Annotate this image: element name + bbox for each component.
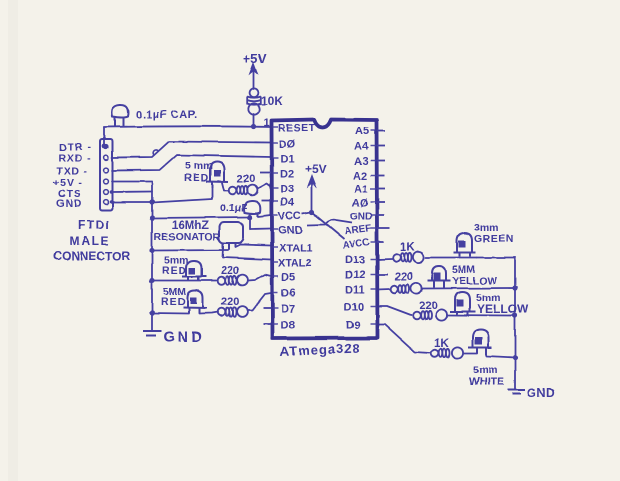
wire CTS row xyxy=(112,191,152,194)
tick D8 xyxy=(263,323,271,325)
wire +5V node to AVCC xyxy=(312,213,344,240)
svg-text:D13: D13 xyxy=(345,255,365,267)
svg-text:RESET: RESET xyxy=(278,122,316,134)
svg-text:D12: D12 xyxy=(345,270,365,282)
junction dot CTS exit xyxy=(110,190,114,194)
tick D12 xyxy=(377,274,388,276)
svg-text:A4: A4 xyxy=(354,141,369,153)
LED white body xyxy=(468,330,492,357)
wire RXD to D1 xyxy=(112,142,271,158)
svg-text:D11: D11 xyxy=(345,285,365,297)
capacitor C1 0.1uF body xyxy=(112,104,128,126)
svg-text:DØ: DØ xyxy=(279,139,296,151)
svg-text:YELLOW: YELLOW xyxy=(452,275,497,287)
wire LED1 cathode spur xyxy=(152,183,212,203)
junction dot rail GND row xyxy=(149,199,154,204)
resistor R1 10K vertical body xyxy=(247,88,261,114)
wire RESET net horizontal xyxy=(104,125,271,128)
capacitor C2 0.1uF body xyxy=(244,201,261,217)
svg-text:D10: D10 xyxy=(344,302,364,314)
svg-text:MALE: MALE xyxy=(70,234,110,248)
wire resonator ground line xyxy=(152,249,229,252)
junction dot rail D6 row xyxy=(149,310,154,315)
tick A1 xyxy=(377,188,385,190)
wire GND to AREF with hump xyxy=(307,220,352,225)
wire 10K pullup lead xyxy=(253,114,255,127)
wire D3 resistor to pin xyxy=(258,184,271,189)
svg-text:XTAL2: XTAL2 xyxy=(278,258,312,270)
svg-text:220: 220 xyxy=(221,265,239,277)
ground symbol right xyxy=(508,390,525,394)
wire yellow LED1 to rail xyxy=(422,287,515,290)
FTDI pin GND xyxy=(104,200,109,205)
wire D6 LED row xyxy=(152,312,189,315)
svg-text:YELLOW: YELLOW xyxy=(477,302,529,316)
wire D11 row to resistor xyxy=(377,288,390,291)
FTDI connector J1 body xyxy=(100,139,113,210)
svg-text:220: 220 xyxy=(221,296,239,308)
svg-text:0.1μF: 0.1μF xyxy=(220,202,248,214)
svg-text:+5V: +5V xyxy=(243,51,267,66)
svg-text:WHITE: WHITE xyxy=(469,376,504,388)
tick GND right xyxy=(377,214,384,216)
FTDI pin RXD xyxy=(104,155,109,160)
tick A2 xyxy=(377,175,385,177)
svg-text:D6: D6 xyxy=(281,288,295,300)
svg-text:5mm: 5mm xyxy=(473,364,498,376)
junction dot right rail yellow2 xyxy=(512,313,517,318)
resistor R6 220 body (D11) xyxy=(391,283,422,294)
chip U1 ATmega328 outline with notch xyxy=(272,120,378,339)
wire left ground rail xyxy=(151,182,153,332)
junction dot rail D5 row xyxy=(149,278,154,283)
junction dot rail VCC line xyxy=(149,215,154,220)
svg-text:RED: RED xyxy=(162,265,187,277)
svg-text:5 mm: 5 mm xyxy=(185,160,212,172)
LED D5red body xyxy=(183,261,207,281)
wire D6 LED to resistor xyxy=(199,312,218,314)
LED D3red body xyxy=(206,162,228,188)
tick D4 xyxy=(262,200,271,202)
wire yellow LED2 to rail xyxy=(447,314,515,317)
chip pin stub dashes inside body xyxy=(273,127,377,324)
svg-text:RED: RED xyxy=(184,172,209,184)
tick A3 xyxy=(377,160,385,162)
junction dot right rail white xyxy=(512,355,517,360)
resistor R4 220 body (D6) xyxy=(218,306,248,317)
svg-text:D9: D9 xyxy=(346,320,360,332)
svg-text:A5: A5 xyxy=(355,126,369,138)
resistor R7 220 body (D10) xyxy=(413,309,447,320)
svg-text:D4: D4 xyxy=(280,197,295,209)
tick A5 xyxy=(377,130,385,132)
junction dot node RESET/10K xyxy=(251,124,256,129)
svg-text:220: 220 xyxy=(395,271,413,283)
svg-text:D7: D7 xyxy=(281,304,295,316)
LED green body xyxy=(454,233,476,257)
junction dot GND exit xyxy=(110,200,114,204)
svg-text:AØ: AØ xyxy=(352,198,369,210)
junction dot +5V node xyxy=(309,210,314,215)
wire D5 resistor to pin xyxy=(248,275,271,281)
svg-text:D8: D8 xyxy=(281,320,295,332)
wire D13 row to resistor xyxy=(377,258,392,261)
resistor R5 1K body (D13) xyxy=(393,252,424,263)
crossover hump xyxy=(153,150,158,155)
wire right ground rail xyxy=(514,258,516,390)
tick D2 xyxy=(260,172,271,174)
wire 1K to white LED xyxy=(464,353,478,355)
tick A0 xyxy=(377,201,385,203)
LED yellow2 body xyxy=(450,292,476,315)
node +5V inside chip: arrow xyxy=(302,177,352,239)
tick D7 xyxy=(263,307,271,309)
resonator X1 16MHz body xyxy=(219,222,243,250)
tick A4 xyxy=(377,145,385,147)
svg-text:XTAL1: XTAL1 xyxy=(279,243,313,255)
svg-text:RXD -: RXD - xyxy=(58,153,92,165)
junction dot rail resonator xyxy=(149,248,154,253)
+5V arrow head (top) xyxy=(250,64,257,74)
LED yellow1 body xyxy=(428,266,451,288)
svg-text:GND: GND xyxy=(56,198,82,210)
ground symbol left xyxy=(143,331,161,336)
svg-text:GND: GND xyxy=(278,225,303,237)
FTDI pin TXD xyxy=(104,168,109,173)
svg-text:D2: D2 xyxy=(280,169,294,181)
junction dot DTR xyxy=(102,144,107,149)
wire D5 LED row xyxy=(152,280,217,282)
chip pin ticks left xyxy=(260,173,271,325)
wire cap to GND pin xyxy=(250,217,271,230)
resistor R2 220 body (D3) xyxy=(229,185,258,196)
junction dot right rail yellow1 xyxy=(512,285,517,290)
svg-text:GREEN: GREEN xyxy=(474,233,514,245)
wire +5V row xyxy=(112,181,152,183)
junction dot cap2 VCC xyxy=(247,214,252,219)
resistor R3 220 body (D5) xyxy=(218,275,248,286)
svg-text:TXD -: TXD - xyxy=(56,166,88,178)
wire XTAL1 xyxy=(235,243,271,247)
svg-text:D3: D3 xyxy=(280,184,294,196)
svg-text:RED: RED xyxy=(161,296,186,308)
FTDI pin +5V xyxy=(104,179,109,184)
wire 1K to green LED xyxy=(426,257,477,259)
wire D6 resistor to pin xyxy=(248,293,272,311)
wire XTAL2 xyxy=(223,247,272,260)
chip pin ticks right xyxy=(377,131,390,275)
svg-text:D1: D1 xyxy=(280,154,294,166)
resistor R8 1K body (D9) xyxy=(431,347,463,358)
svg-text:10K: 10K xyxy=(261,94,283,108)
FTDI pin DTR xyxy=(103,144,108,149)
svg-text:A1: A1 xyxy=(354,184,368,196)
svg-text:FTDI: FTDI xyxy=(78,218,111,232)
wire +5V arrow stem xyxy=(253,71,255,89)
wire green LED to rail xyxy=(477,257,515,259)
wire VCC net xyxy=(152,217,250,218)
svg-text:1K: 1K xyxy=(434,338,449,350)
tick AVCC xyxy=(377,241,384,243)
svg-text:0.1μF CAP.: 0.1μF CAP. xyxy=(136,109,198,121)
svg-text:1K: 1K xyxy=(400,242,415,254)
wire white LED to rail xyxy=(487,356,516,358)
FTDI pin CTS xyxy=(104,190,109,195)
svg-text:D5: D5 xyxy=(281,272,295,284)
svg-text:GND: GND xyxy=(350,212,372,223)
svg-text:220: 220 xyxy=(419,300,437,312)
wire D9 diagonal to resistor xyxy=(377,325,430,354)
wire GND row xyxy=(112,201,152,203)
svg-text:A3: A3 xyxy=(354,156,368,168)
svg-text:+5V: +5V xyxy=(305,162,327,176)
svg-text:RESONATOR: RESONATOR xyxy=(154,231,221,243)
wire TXD to D0 with crossover xyxy=(112,155,271,171)
svg-text:220: 220 xyxy=(237,173,255,185)
tick AREF xyxy=(377,227,390,229)
svg-text:A2: A2 xyxy=(353,171,367,183)
wire D10 diagonal to resistor xyxy=(377,306,411,315)
wire VCC to +5V node xyxy=(302,213,311,215)
wire D3 LED to resistor xyxy=(222,183,229,191)
LED D6red body xyxy=(183,291,207,314)
svg-text:CONNECTOR: CONNECTOR xyxy=(53,249,130,263)
svg-text:GND: GND xyxy=(163,329,205,346)
svg-text:VCC: VCC xyxy=(278,211,301,223)
wire DTR drop xyxy=(103,127,105,146)
svg-text:1: 1 xyxy=(264,117,270,129)
svg-text:GND: GND xyxy=(527,386,555,400)
wire VCC into chip xyxy=(258,215,271,217)
